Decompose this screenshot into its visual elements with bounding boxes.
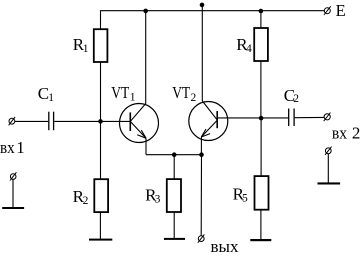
svg-text:1: 1 — [130, 92, 136, 104]
svg-text:1: 1 — [16, 138, 25, 157]
svg-text:2: 2 — [191, 92, 197, 104]
svg-text:5: 5 — [242, 192, 248, 204]
svg-text:1: 1 — [83, 43, 89, 55]
svg-text:4: 4 — [246, 43, 252, 55]
svg-text:2: 2 — [352, 124, 360, 143]
svg-text:вых: вых — [211, 237, 239, 256]
svg-text:3: 3 — [155, 194, 161, 206]
svg-text:вх: вх — [332, 124, 348, 143]
svg-text:2: 2 — [83, 195, 89, 207]
svg-text:вх: вх — [0, 138, 15, 157]
svg-text:E: E — [336, 1, 346, 20]
svg-text:1: 1 — [48, 92, 54, 104]
svg-text:VT: VT — [172, 83, 190, 102]
svg-text:2: 2 — [293, 93, 299, 105]
svg-text:VT: VT — [111, 83, 129, 102]
